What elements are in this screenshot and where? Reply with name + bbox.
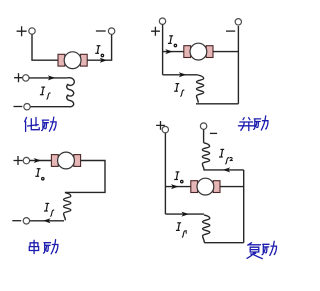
current arrow If (points left): [43, 218, 51, 223]
plus sign (compound): [156, 121, 165, 130]
wire from field + terminal to coil: [29, 77, 67, 79]
wire from motor to right rail: [213, 51, 238, 53]
terminal - armature: [108, 28, 114, 34]
caption hanzi 串 (series): [29, 240, 38, 253]
terminal + field: [23, 75, 29, 81]
plus sign: [151, 27, 160, 36]
shunt field winding coil: [197, 75, 204, 103]
subscript f: [50, 210, 54, 217]
armature branch wire: [165, 186, 190, 188]
wire from coil to - terminal: [30, 106, 65, 108]
subscript f: [225, 158, 229, 165]
wire from + terminal to motor: [32, 34, 58, 60]
label I (of If2): [219, 149, 224, 157]
current arrow If: [48, 75, 56, 80]
wire from motor to right rail: [220, 186, 244, 188]
wire from shunt coil to right rail: [204, 169, 244, 171]
terminal + armature: [29, 28, 35, 34]
subscript a: [101, 54, 103, 56]
terminal - field: [24, 104, 30, 110]
terminal - (shunt): [235, 19, 241, 25]
current arrow Ia: [34, 158, 42, 163]
terminal - series: [23, 218, 29, 224]
caption hanzi 励 (excited): [44, 240, 58, 254]
subscript f: [47, 93, 51, 100]
current arrow Ia: [171, 184, 179, 189]
label I (of If): [44, 203, 49, 211]
series field winding coil: [64, 193, 71, 221]
subscript a: [174, 44, 176, 46]
label I (of If): [40, 87, 45, 95]
current arrow If1: [181, 212, 189, 217]
dc motor armature M (series): [51, 152, 80, 169]
terminal + compound: [162, 126, 168, 132]
separately excited field winding coil: [66, 78, 75, 107]
dc motor armature M (shunt): [184, 43, 213, 60]
subscript f: [180, 90, 184, 97]
minus sign (armature source -): [96, 30, 106, 32]
wire from - terminal to shunt coil: [203, 129, 205, 143]
subscript f: [182, 231, 186, 238]
field branch wire: [163, 74, 198, 76]
subscript 1: [185, 231, 188, 234]
minus sign (field source -): [14, 106, 23, 108]
series field branch wire: [165, 213, 204, 215]
right supply wire: [237, 26, 239, 104]
caption hanzi 励 (excited): [254, 116, 268, 130]
shunt field winding coil Lf2: [202, 143, 209, 171]
plus sign (series): [14, 156, 23, 165]
wire from coil bottom to right rail: [196, 103, 238, 105]
current arrow Ia: [165, 49, 173, 54]
subscript a: [42, 178, 44, 180]
armature branch wire: [163, 51, 184, 53]
wire from + to motor: [30, 160, 52, 162]
series field winding coil Lf1: [203, 215, 210, 243]
label I (of If1): [176, 223, 181, 231]
terminal + (shunt): [159, 18, 165, 24]
caption hanzi 他 (separately): [25, 118, 40, 132]
wire from coil to - terminal: [30, 220, 65, 222]
plus sign (field source +): [14, 73, 23, 82]
label I (of Ia): [95, 46, 100, 54]
plus sign (armature source +): [17, 26, 27, 36]
label I (of Ia): [168, 36, 173, 44]
left supply wire: [164, 133, 166, 214]
minus sign: [226, 30, 235, 32]
subscript a: [181, 180, 183, 182]
caption hanzi 励 (excited): [262, 241, 276, 255]
label I (of Ia): [174, 172, 179, 180]
caption hanzi 励 (excited): [42, 117, 56, 131]
current arrow Ia: [100, 58, 108, 63]
wire from series coil to right rail: [204, 242, 244, 244]
minus sign (compound): [210, 132, 217, 134]
current arrow If2 (points left): [223, 167, 231, 172]
right rail wire: [243, 170, 245, 243]
minus sign (series): [12, 220, 21, 222]
left supply wire: [162, 24, 164, 75]
caption hanzi 并 (shunt): [238, 118, 254, 131]
wire from motor to series coil: [65, 161, 105, 193]
label I (of If): [174, 84, 179, 92]
terminal - compound: [200, 123, 206, 129]
terminal + series: [23, 157, 29, 163]
wire from motor to - terminal: [87, 34, 111, 60]
current arrow If: [179, 72, 187, 77]
dc motor armature M (separately excited): [58, 52, 87, 69]
subscript 2: [230, 157, 233, 160]
label I (of Ia): [35, 169, 40, 177]
caption hanzi 复 (compound): [247, 243, 262, 259]
dc motor armature M (compound): [191, 178, 220, 195]
